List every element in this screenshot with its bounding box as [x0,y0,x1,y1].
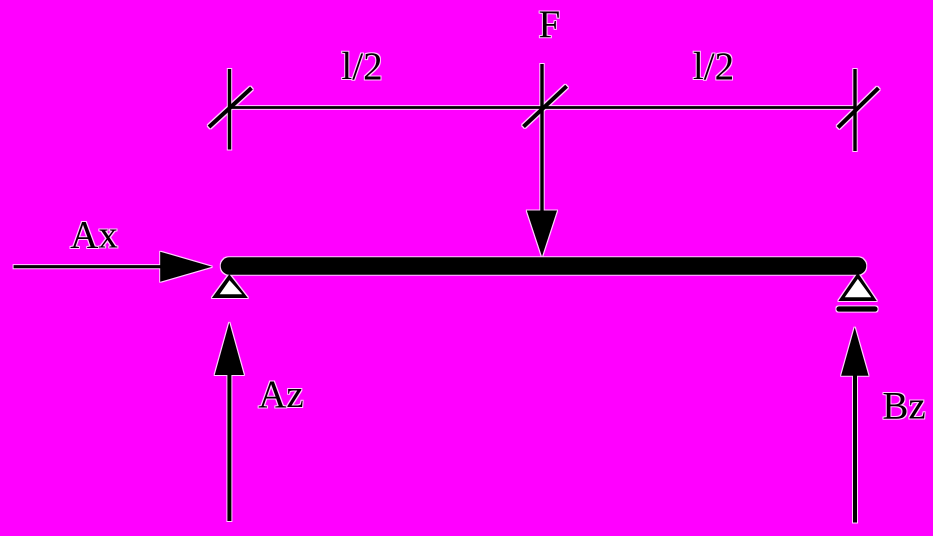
force F arrowhead [527,211,557,257]
dimension line [230,106,856,109]
support A pin triangle [212,274,248,298]
svg-text:l/2: l/2 [693,45,734,88]
dimension tick left vertical [228,69,231,150]
svg-text:l/2: l/2 [341,45,382,88]
force F line [540,64,543,213]
force Ax line [14,265,162,268]
force Ax arrowhead [160,252,212,282]
svg-text:Bz: Bz [882,385,925,428]
support B roller triangle [838,273,877,301]
force Az arrowhead [215,323,244,376]
support B roller base line [839,306,875,311]
dimension tick center slash [524,86,567,126]
force Az line [227,374,231,521]
svg-text:Ax: Ax [70,214,118,257]
force Bz line [853,374,857,523]
dimension tick right slash [838,88,878,127]
svg-text:Az: Az [258,373,303,416]
dimension tick right vertical [853,69,856,151]
dimension tick left slash [209,88,252,127]
force Bz arrowhead [841,327,868,376]
svg-text:F: F [538,3,560,46]
beam [230,257,858,275]
